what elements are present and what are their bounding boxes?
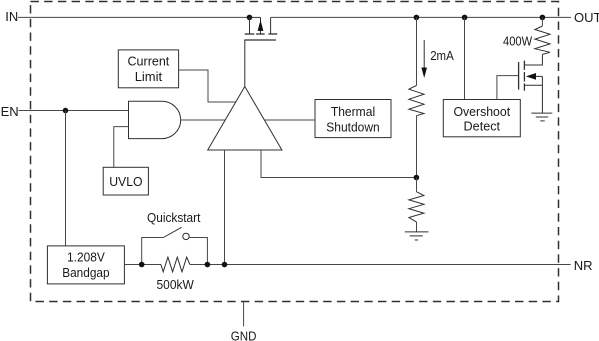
- wire source to ground: [541, 76, 543, 113]
- 2mA annotation arrow: [423, 40, 425, 69]
- wire NR rail left: [124, 264, 161, 266]
- bulk arrow: [534, 75, 542, 77]
- node EN junction: [63, 108, 69, 114]
- transistor overshoot NMOS: [519, 54, 543, 113]
- dashed chip boundary: [31, 2, 559, 302]
- node OUT-400W junction: [540, 15, 546, 21]
- svg-text:500kW: 500kW: [157, 277, 195, 292]
- channel segments: [523, 61, 525, 70]
- wire overshoot gate drive: [497, 76, 519, 100]
- AND gate: [129, 101, 181, 138]
- left (source) terminal: [249, 17, 251, 34]
- wire 400W upper lead: [541, 17, 543, 26]
- svg-text:IN: IN: [5, 9, 18, 24]
- wire amplifier feedback to resistor node: [261, 150, 416, 178]
- node feedback junction: [414, 175, 420, 181]
- svg-text:Limit: Limit: [135, 69, 163, 84]
- gate bar: [244, 39, 276, 41]
- wire UVLO to AND input: [114, 127, 129, 168]
- svg-text:GND: GND: [231, 328, 257, 341]
- box Thermal Shutdown: [315, 100, 391, 138]
- gate lead to amplifier: [244, 40, 246, 87]
- resistor 500kW: [161, 257, 190, 272]
- box Current Limit: [118, 50, 178, 88]
- wire amplifier to thermal shutdown: [265, 119, 316, 121]
- ground overshoot: [531, 113, 552, 121]
- resistor 2mA source load: [409, 86, 424, 116]
- source stub: [524, 84, 542, 86]
- resistor lower divider: [409, 192, 424, 222]
- wire amplifier to NR rail: [224, 150, 226, 265]
- wire NR rail right: [190, 264, 571, 266]
- node OUT-2mA junction: [414, 15, 420, 21]
- wire EN to bandgap: [65, 111, 67, 246]
- drain stub: [524, 54, 542, 65]
- body connection jog: [250, 16, 261, 18]
- wire 2mA branch lower: [416, 116, 418, 178]
- svg-text:Overshoot: Overshoot: [453, 104, 510, 119]
- svg-text:400W: 400W: [503, 33, 533, 48]
- wire current-limit to amplifier: [179, 70, 236, 102]
- svg-text:Bandgap: Bandgap: [62, 265, 109, 280]
- wire GND stub: [243, 302, 245, 327]
- box Overshoot Detect: [443, 100, 520, 137]
- ground divider: [405, 232, 429, 240]
- resistor 400W: [535, 26, 550, 54]
- svg-text:1.208V: 1.208V: [67, 249, 105, 264]
- node amplifier-NR junction: [222, 262, 228, 268]
- right (drain) terminal: [270, 17, 272, 34]
- op-amp error amplifier: [208, 87, 282, 151]
- wire overshoot sense: [464, 17, 466, 99]
- box 1.208V Bandgap: [47, 246, 124, 284]
- transistor pass PMOS: [244, 17, 277, 86]
- svg-text:Detect: Detect: [464, 119, 501, 134]
- svg-text:Current: Current: [128, 54, 170, 69]
- wire 2mA branch upper: [416, 17, 418, 85]
- wire to lower resistor: [416, 178, 418, 192]
- box UVLO: [103, 167, 148, 195]
- wire AND output to amplifier: [181, 119, 226, 121]
- svg-text:Shutdown: Shutdown: [326, 119, 380, 134]
- node IN junction: [247, 15, 253, 21]
- svg-text:OUT: OUT: [574, 10, 599, 25]
- gate bar: [518, 62, 520, 90]
- switch Quickstart: [142, 238, 164, 265]
- node OUT-overshoot junction: [462, 15, 468, 21]
- wire OUT rail: [271, 16, 571, 18]
- svg-text:Quickstart: Quickstart: [147, 210, 201, 225]
- wire resistor to ground: [416, 222, 418, 232]
- node switch junction: [205, 262, 211, 268]
- wire IN rail: [18, 16, 250, 18]
- wire EN input: [19, 110, 129, 112]
- svg-text:NR: NR: [574, 258, 593, 273]
- svg-text:2mA: 2mA: [430, 48, 454, 63]
- node bandgap junction: [139, 262, 145, 268]
- svg-text:UVLO: UVLO: [109, 174, 142, 189]
- svg-text:EN: EN: [1, 104, 19, 119]
- svg-text:Thermal: Thermal: [331, 104, 375, 119]
